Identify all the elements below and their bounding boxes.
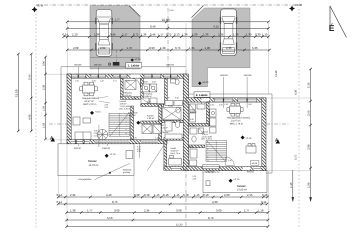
svg-text:1,90: 1,90 xyxy=(205,46,211,50)
svg-text:8,75: 8,75 xyxy=(112,200,118,204)
svg-text:1,36: 1,36 xyxy=(94,33,100,37)
unit 1 pantry crossed shelves xyxy=(142,125,161,134)
svg-text:240/240: 240/240 xyxy=(102,147,111,150)
svg-text:3,00: 3,00 xyxy=(114,208,120,212)
svg-text:2,05: 2,05 xyxy=(147,101,151,104)
unit 1 stair label xyxy=(120,100,131,110)
unit 2 corner level box xyxy=(251,160,259,165)
unit 2 stair label xyxy=(202,131,213,141)
svg-text:2,17: 2,17 xyxy=(122,33,128,37)
property boundary top (dash-dot) xyxy=(36,4,299,6)
svg-text:15,05: 15,05 xyxy=(14,89,18,97)
svg-text:16,80: 16,80 xyxy=(162,18,170,22)
svg-text:1,30: 1,30 xyxy=(246,33,252,37)
unit 2 partition horizontal 1 xyxy=(189,124,210,127)
svg-text:1,36: 1,36 xyxy=(203,33,209,37)
svg-text:13,93 m²: 13,93 m² xyxy=(237,189,247,192)
north arrow xyxy=(330,6,347,38)
svg-text:B: B xyxy=(108,62,111,67)
svg-text:Terasz: Terasz xyxy=(88,159,97,163)
unit 1 kitchen counters xyxy=(142,84,157,92)
unit 2 window sill hatch xyxy=(203,171,220,173)
svg-text:±0,00: ±0,00 xyxy=(135,58,142,61)
svg-text:15,30: 15,30 xyxy=(176,223,183,226)
svg-text:2,90: 2,90 xyxy=(152,81,156,84)
svg-text:1,76: 1,76 xyxy=(127,46,133,50)
section line A-A segments xyxy=(49,123,67,125)
svg-text:2,00: 2,00 xyxy=(224,193,230,197)
unit 2 front door swing xyxy=(202,102,209,109)
svg-text:0,10: 0,10 xyxy=(262,193,268,197)
survey cross right xyxy=(289,3,302,12)
svg-text:1,38: 1,38 xyxy=(70,208,76,212)
svg-text:1,01: 1,01 xyxy=(126,80,130,83)
svg-text:0,14: 0,14 xyxy=(57,200,63,204)
unit 1 interior partition vertical (living/hall) xyxy=(121,78,124,97)
svg-text:1,98: 1,98 xyxy=(307,182,311,188)
svg-text:0,75: 0,75 xyxy=(295,154,298,160)
svg-text:4,20 m²: 4,20 m² xyxy=(190,111,197,114)
unit 1 window dim texts xyxy=(75,80,130,83)
svg-text:1,50: 1,50 xyxy=(224,103,228,106)
svg-text:0,10: 0,10 xyxy=(203,193,209,197)
svg-text:0,46: 0,46 xyxy=(150,33,156,37)
unit 1 kitchen lower boxes xyxy=(141,98,157,104)
window axis labels unit 1 top xyxy=(75,64,175,67)
svg-text:8,79: 8,79 xyxy=(208,216,214,220)
svg-text:5,36: 5,36 xyxy=(252,46,258,50)
unit 1 front door swing xyxy=(131,78,141,88)
unit 2 hall partition vertical xyxy=(207,102,210,126)
unit 2 dining table xyxy=(227,103,243,116)
unit 2 hall labels xyxy=(190,109,197,149)
svg-text:5,36: 5,36 xyxy=(307,82,311,88)
svg-text:8,40: 8,40 xyxy=(150,24,156,28)
svg-text:1,00: 1,00 xyxy=(210,104,214,107)
svg-text:+0,15: +0,15 xyxy=(245,137,252,140)
svg-text:0,90: 0,90 xyxy=(190,118,194,121)
svg-text:1,50: 1,50 xyxy=(100,80,104,83)
wheel stop line left driveway xyxy=(90,57,140,59)
svg-text:5,95 m²: 5,95 m² xyxy=(145,95,153,98)
extension lines horizontal sides xyxy=(46,74,310,170)
svg-text:1,40: 1,40 xyxy=(155,137,159,140)
svg-text:2,35: 2,35 xyxy=(218,33,224,37)
unit 2 living room label xyxy=(227,117,251,126)
unit 1 entry hall label xyxy=(124,92,133,98)
svg-text:1,70: 1,70 xyxy=(166,97,170,100)
section line B vertical xyxy=(116,50,118,63)
svg-text:1,10: 1,10 xyxy=(262,33,268,37)
center plot axis (dash-dot) xyxy=(167,8,169,68)
section marker A right xyxy=(275,138,280,144)
unit 1 interior partition horizontal mid xyxy=(141,104,164,107)
svg-text:0,90: 0,90 xyxy=(134,193,140,197)
tree trunk / window axis xyxy=(98,125,100,147)
party wall xyxy=(183,74,188,171)
svg-text:5: 5 xyxy=(126,121,127,124)
svg-text:Bm: 2,76 m: Bm: 2,76 m xyxy=(202,138,213,141)
svg-text:0,90: 0,90 xyxy=(43,60,46,66)
svg-text:4,36: 4,36 xyxy=(295,89,298,95)
unit 2 kitchen fixtures along party wall xyxy=(190,104,217,133)
svg-text:90/150: 90/150 xyxy=(247,170,254,173)
gate diagonal right driveway xyxy=(192,6,204,18)
unit 1 interior partition bath divider xyxy=(162,120,184,122)
window labels unit1 bottom xyxy=(74,147,111,150)
svg-text:0,75: 0,75 xyxy=(175,46,181,50)
svg-text:6,25: 6,25 xyxy=(214,24,220,28)
svg-text:1,50: 1,50 xyxy=(248,103,252,106)
svg-text:1,15: 1,15 xyxy=(154,193,160,197)
svg-text:Bm: 2,70 m: Bm: 2,70 m xyxy=(120,107,131,110)
unit 1 interior partition pantry xyxy=(141,121,162,123)
svg-text:2,00: 2,00 xyxy=(307,110,311,116)
svg-text:1,36: 1,36 xyxy=(182,33,188,37)
terrace 2 spot diamond xyxy=(229,179,233,183)
leader to terrace door xyxy=(147,144,165,171)
svg-text:Gépész.: Gépész. xyxy=(162,131,170,134)
car 2 (right driveway) xyxy=(220,9,237,56)
right vertical dimension line 2 xyxy=(292,170,294,201)
unit 1 spot diamond stairs xyxy=(136,121,140,125)
unit 1 bathtub xyxy=(163,108,182,120)
unit 1 bath fixtures xyxy=(165,79,183,139)
unit 2 spot level diamond xyxy=(241,136,252,140)
svg-text:0,10: 0,10 xyxy=(183,193,189,197)
property boundary left (dotted) xyxy=(35,10,37,229)
svg-text:2,10: 2,10 xyxy=(105,106,109,109)
svg-text:2,34: 2,34 xyxy=(70,193,76,197)
svg-text:0,30: 0,30 xyxy=(255,33,261,37)
svg-text:É: É xyxy=(329,23,335,33)
svg-text:11: 11 xyxy=(125,132,127,135)
svg-text:0,90: 0,90 xyxy=(175,97,179,100)
label box unit 1 xyxy=(126,63,142,68)
extension lines vertical top xyxy=(67,23,268,94)
svg-text:150/150: 150/150 xyxy=(243,74,252,77)
svg-text:5,00 m²: 5,00 m² xyxy=(125,94,132,97)
svg-text:1,17: 1,17 xyxy=(158,33,164,37)
svg-text:1,05: 1,05 xyxy=(43,105,46,111)
svg-text:1,15: 1,15 xyxy=(174,193,180,197)
svg-text:3: 3 xyxy=(126,117,127,120)
svg-text:+0,00: +0,00 xyxy=(295,3,303,7)
svg-text:0,72: 0,72 xyxy=(133,33,139,37)
spot elevation at unit2 entry xyxy=(198,81,209,85)
svg-text:1,15: 1,15 xyxy=(194,193,200,197)
svg-text:3: 3 xyxy=(207,144,208,147)
gate diagonal left driveway xyxy=(129,6,141,17)
svg-text:Hézagolatlan: Hézagolatlan xyxy=(79,178,93,181)
svg-text:0,90: 0,90 xyxy=(149,46,155,50)
svg-text:±0,00: ±0,00 xyxy=(202,81,209,84)
driveway right (paved, grey, with entrance path) xyxy=(192,8,250,87)
svg-text:5,53: 5,53 xyxy=(107,216,113,220)
driveway left (paved, grey) xyxy=(90,6,140,69)
terrace unit 1 xyxy=(58,144,134,176)
svg-text:14,36: 14,36 xyxy=(275,70,278,77)
svg-text:2,34: 2,34 xyxy=(144,208,150,212)
svg-text:2. Lakás: 2. Lakás xyxy=(196,93,208,97)
unit 2 top wall xyxy=(186,98,266,102)
svg-text:Terasz: Terasz xyxy=(237,184,246,188)
unit 1 lower-right room walls xyxy=(164,138,189,171)
window axis below hall door xyxy=(137,144,141,158)
svg-text:150/150: 150/150 xyxy=(166,64,175,67)
party wall axis (dashed) xyxy=(185,70,187,227)
unit 1 pantry label xyxy=(147,115,155,121)
svg-text:2,94: 2,94 xyxy=(100,46,106,50)
svg-text:0,10: 0,10 xyxy=(94,135,98,138)
svg-text:1,50: 1,50 xyxy=(75,80,79,83)
svg-text:+0,15: +0,15 xyxy=(95,111,102,114)
section marker A left xyxy=(50,136,55,142)
right vertical dimension line 1 xyxy=(309,68,312,202)
top dimension row 2 xyxy=(66,27,270,30)
svg-text:2,10: 2,10 xyxy=(72,33,78,37)
svg-text:4,09 m²: 4,09 m² xyxy=(129,114,136,117)
svg-text:7: 7 xyxy=(207,152,208,155)
unit 1 wall right of stairs xyxy=(131,106,134,140)
svg-text:3,98: 3,98 xyxy=(307,144,311,150)
spot elevation at unit1 entry xyxy=(131,58,142,62)
unit 1 vestibule wall xyxy=(121,97,142,100)
svg-text:greslap: greslap xyxy=(123,171,131,174)
unit 1 top wall xyxy=(67,74,186,78)
unit 1 sofa xyxy=(73,117,91,140)
svg-text:+0,15: +0,15 xyxy=(233,178,240,181)
bottom dimension row 5 xyxy=(65,225,269,228)
svg-text:2,00: 2,00 xyxy=(193,177,197,180)
unit 2 bottom wall xyxy=(186,165,266,171)
svg-text:Bm 2,70 m: Bm 2,70 m xyxy=(171,152,181,155)
tree symbol xyxy=(97,129,107,139)
stairs side dim texts xyxy=(105,104,109,110)
unit 1 bottom wall xyxy=(67,140,167,144)
unit 1 spot level diamond xyxy=(90,111,101,115)
extension lines vertical bottom xyxy=(58,144,268,226)
svg-text:0,10: 0,10 xyxy=(163,193,169,197)
unit 2 washing corner xyxy=(190,160,197,166)
svg-text:1,77: 1,77 xyxy=(244,208,250,212)
left vertical dimension line 2 xyxy=(30,53,33,133)
unit 1 hall label xyxy=(128,112,138,118)
unit 1 stairs step numbers xyxy=(125,113,127,135)
svg-text:1,90 m²: 1,90 m² xyxy=(147,117,155,120)
svg-text:0,14: 0,14 xyxy=(63,33,69,37)
window axis labels unit 2 top xyxy=(220,74,252,77)
unit 2 right wall xyxy=(262,98,266,171)
svg-text:3,68: 3,68 xyxy=(176,208,182,212)
svg-text:0,72: 0,72 xyxy=(166,33,172,37)
property boundary right (dotted) xyxy=(298,9,300,227)
window labels unit2 bottom xyxy=(206,170,254,173)
svg-text:2,35: 2,35 xyxy=(226,46,232,50)
svg-text:0,13: 0,13 xyxy=(174,33,180,37)
bottom dimension row 2 xyxy=(57,203,268,206)
svg-text:60/60: 60/60 xyxy=(143,81,148,84)
svg-text:150/150: 150/150 xyxy=(94,64,103,67)
svg-text:4,30: 4,30 xyxy=(212,200,218,204)
svg-text:-0,45: -0,45 xyxy=(37,4,44,8)
svg-text:11: 11 xyxy=(207,159,209,162)
unit 1 dining table xyxy=(80,82,98,96)
svg-text:1,40: 1,40 xyxy=(228,159,232,162)
svg-text:0,14: 0,14 xyxy=(261,200,267,204)
unit 2 interior dim texts xyxy=(190,104,232,163)
svg-text:3,60: 3,60 xyxy=(216,208,222,212)
unit 1 living room label xyxy=(83,97,100,106)
unit 1 lower-right room fixtures xyxy=(169,156,182,166)
svg-text:2,77: 2,77 xyxy=(115,18,121,21)
eave outline unit 1 xyxy=(61,67,186,144)
svg-text:1,20 m²: 1,20 m² xyxy=(161,127,168,130)
unit 2 stairs step numbers xyxy=(207,141,209,163)
svg-text:2,15: 2,15 xyxy=(247,193,253,197)
party wall bottom axis texts xyxy=(193,175,197,181)
unit 2 terrace door swing xyxy=(226,157,235,166)
unit 1 interior partition kitchen left xyxy=(141,78,144,99)
unit 1 interior partition bath corridor xyxy=(165,78,168,104)
bottom dimension row 1 xyxy=(57,196,269,199)
svg-text:4,43: 4,43 xyxy=(106,193,112,197)
svg-text:1,18: 1,18 xyxy=(258,208,264,212)
svg-text:Fürdő: Fürdő xyxy=(168,105,174,108)
svg-text:2,05: 2,05 xyxy=(219,104,223,107)
svg-text:7: 7 xyxy=(126,124,127,127)
unit 1 wardrobe at entry xyxy=(125,81,136,90)
eave outline unit 2 xyxy=(186,94,272,173)
terrace 1 small box xyxy=(126,151,133,159)
svg-text:1,00: 1,00 xyxy=(133,97,137,100)
svg-text:90/240: 90/240 xyxy=(74,147,81,150)
svg-text:Fürdő: Fürdő xyxy=(190,125,196,128)
svg-text:±0,00: ±0,00 xyxy=(252,162,258,165)
svg-text:2,39: 2,39 xyxy=(137,150,141,153)
svg-text:150/240: 150/240 xyxy=(206,170,215,173)
unit 1 left wall xyxy=(67,74,71,144)
section marker B xyxy=(108,62,119,67)
svg-text:9: 9 xyxy=(207,156,208,159)
svg-text:BKC 2,76 m: BKC 2,76 m xyxy=(230,122,243,125)
unit 1 kitchen label xyxy=(145,93,153,99)
svg-text:1,45: 1,45 xyxy=(289,182,293,188)
svg-text:1,00: 1,00 xyxy=(192,33,198,37)
svg-text:BKC 2,70 m: BKC 2,70 m xyxy=(84,103,97,106)
svg-text:4,98: 4,98 xyxy=(27,114,31,120)
bottom dimension row 3 xyxy=(65,211,269,214)
left vertical dimension line 3 (near house) xyxy=(44,56,47,141)
svg-text:1,30: 1,30 xyxy=(160,46,166,50)
unit 2 stairs xyxy=(206,141,227,162)
svg-text:0,49: 0,49 xyxy=(110,33,116,37)
svg-text:2,08: 2,08 xyxy=(73,46,79,50)
svg-text:1: 1 xyxy=(207,141,208,144)
terrace 1 spot diamond xyxy=(105,154,109,158)
unit 1 lower-right room label xyxy=(171,147,181,155)
svg-text:0,10: 0,10 xyxy=(144,193,150,197)
svg-text:9: 9 xyxy=(126,128,127,131)
unit 2 bath fixtures xyxy=(190,128,204,158)
svg-text:2,17: 2,17 xyxy=(113,80,117,83)
terrace 1 leader note xyxy=(79,163,133,181)
svg-text:1,36: 1,36 xyxy=(233,33,239,37)
survey cross left xyxy=(32,4,44,13)
svg-text:1,36: 1,36 xyxy=(141,33,147,37)
unit 2 small table xyxy=(246,144,256,154)
svg-text:150/150: 150/150 xyxy=(220,74,229,77)
svg-text:2,38: 2,38 xyxy=(43,84,46,90)
svg-text:5: 5 xyxy=(207,148,208,151)
svg-text:WC: WC xyxy=(190,146,194,149)
unit 2 partition horizontal 2 xyxy=(189,145,205,148)
left vertical dimension line 1 xyxy=(17,53,20,133)
unit 1 bath labels xyxy=(161,105,174,134)
svg-text:1: 1 xyxy=(126,113,127,116)
svg-text:1,77: 1,77 xyxy=(87,208,93,212)
unit 1 stairs xyxy=(109,113,130,136)
svg-text:13,73 m²: 13,73 m² xyxy=(89,164,99,167)
svg-text:0,95: 0,95 xyxy=(133,137,137,140)
svg-text:1. Lakás: 1. Lakás xyxy=(128,64,140,68)
svg-text:5,40: 5,40 xyxy=(27,74,31,80)
top dimension row 3 (many segments) xyxy=(62,35,269,38)
terrace 2 small box xyxy=(206,181,210,186)
svg-text:1,93: 1,93 xyxy=(43,122,46,128)
terrace unit 2 xyxy=(203,171,267,193)
label box unit 2 xyxy=(194,92,210,97)
unit 1 interior dim texts xyxy=(133,97,179,140)
svg-text:1,35: 1,35 xyxy=(189,46,195,50)
car 1 (left driveway) xyxy=(95,10,112,57)
svg-text:+0,15: +0,15 xyxy=(109,153,116,156)
svg-text:0,14: 0,14 xyxy=(57,193,63,197)
top dimension row 4 xyxy=(66,49,271,52)
bottom dimension row 4 xyxy=(65,219,269,222)
svg-text:90/150: 90/150 xyxy=(75,64,82,67)
unit 1 kitchen small texts xyxy=(143,81,156,84)
top dimension row 1 (16,80) xyxy=(66,21,270,24)
